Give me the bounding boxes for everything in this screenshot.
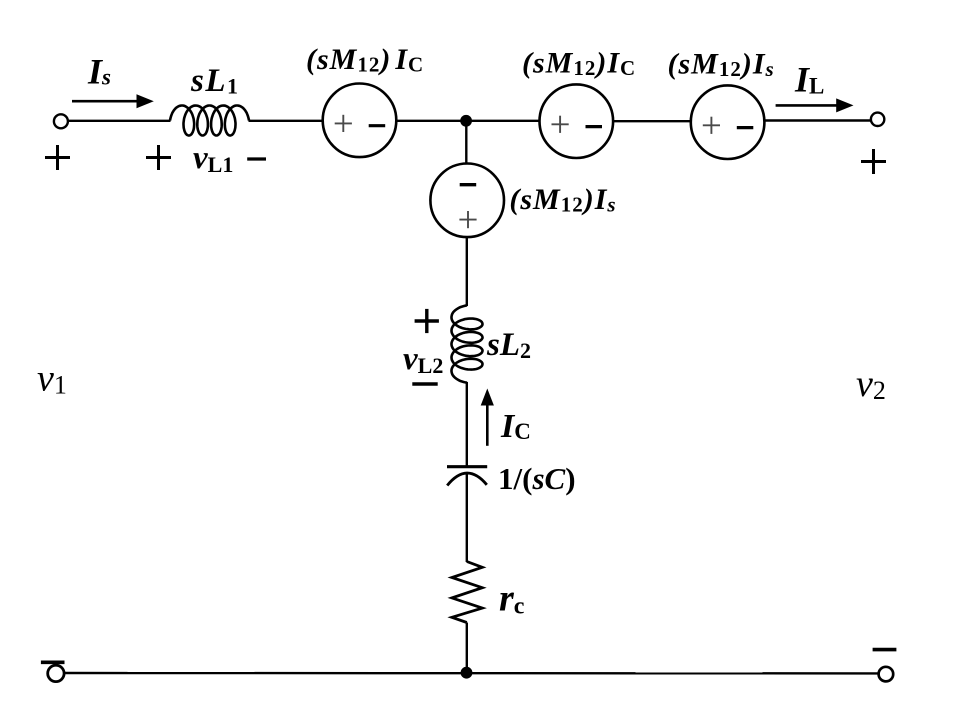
- capacitor C top plate: [447, 465, 487, 468]
- plus at vL2: [415, 309, 439, 333]
- U2 plus: [552, 116, 569, 133]
- terminal bottom-left: [48, 665, 64, 681]
- dependent source U1 circle: [323, 84, 397, 158]
- U1 plus: [335, 115, 352, 132]
- current arrow Is: [72, 100, 139, 103]
- wire U4 to inductor L2: [466, 237, 468, 306]
- plus outer top-right: [861, 149, 886, 174]
- inductor L2 (sL2): [452, 305, 483, 382]
- plus outer top-left: [45, 145, 70, 170]
- node B junction dot: [461, 667, 473, 679]
- minus sign bottom-left: [41, 660, 65, 664]
- plus inner top-left: [146, 145, 171, 170]
- minus after vL1: [247, 157, 266, 160]
- dependent source U4 circle (vertical): [430, 164, 504, 238]
- dependent source U3 circle: [691, 85, 765, 159]
- U3 plus: [703, 117, 720, 134]
- terminal top-right: [871, 113, 884, 126]
- current arrow IC (up): [486, 400, 489, 446]
- minus sign bottom-right: [873, 648, 897, 652]
- U3 minus: [737, 126, 754, 129]
- U2 minus: [586, 125, 603, 128]
- minus at vL2: [412, 382, 437, 386]
- capacitor C bottom curved plate: [447, 473, 487, 485]
- wire resistor to node B: [466, 623, 468, 674]
- inductor L1 (sL1): [170, 106, 249, 136]
- resistor rc zigzag: [452, 562, 482, 623]
- wire node A to source U2: [466, 120, 540, 122]
- node A junction dot: [460, 115, 472, 127]
- wire node A down to source U4: [465, 121, 467, 164]
- svg-text:1/(sC): 1/(sC): [498, 461, 576, 496]
- terminal bottom-right: [879, 667, 894, 682]
- U1 minus: [369, 124, 386, 127]
- wire U1 to node A: [396, 120, 466, 122]
- wire top-left to inductor L1: [68, 120, 171, 122]
- dependent source U2 circle: [540, 84, 614, 158]
- wire capacitor to resistor: [466, 473, 468, 562]
- wire L2 to capacitor: [466, 382, 468, 466]
- U4 plus (bottom): [459, 211, 476, 228]
- bottom rail wire: [64, 672, 878, 675]
- wire L1 to source U1: [249, 120, 324, 122]
- terminal top-left: [54, 114, 68, 128]
- wire U2 to U3: [613, 120, 691, 122]
- current arrow IL: [776, 104, 840, 107]
- wire U3 to terminal top-right: [764, 119, 871, 121]
- U4 minus (top): [460, 183, 477, 186]
